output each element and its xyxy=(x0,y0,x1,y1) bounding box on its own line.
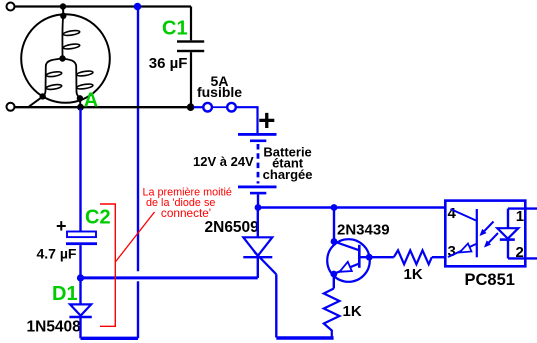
svg-text:2N3439: 2N3439 xyxy=(337,221,390,238)
battery BT1 plates xyxy=(238,133,277,194)
svg-text:12V à 24V: 12V à 24V xyxy=(193,154,254,169)
node rail-collector junction xyxy=(331,204,338,211)
inductor winding top loop 1 xyxy=(63,30,80,37)
wire emitter down lead xyxy=(333,274,335,289)
wire fuse left lead xyxy=(194,106,204,108)
wire main rail to optocoupler xyxy=(258,206,445,209)
LED anode lead xyxy=(507,209,509,229)
wire C1 bottom lead xyxy=(190,52,192,107)
svg-text:C2: C2 xyxy=(85,207,111,229)
inductor winding left loop 2 xyxy=(46,84,62,91)
node blue junction top xyxy=(134,3,142,11)
capacitor C1 plates xyxy=(177,40,204,52)
svg-text:fusible: fusible xyxy=(197,84,242,100)
resistor R2 1K vertical xyxy=(324,289,340,338)
node emitter junction xyxy=(330,271,337,278)
node bottom rail junction xyxy=(187,103,195,111)
phototransistor base bar xyxy=(476,209,478,257)
svg-text:1K: 1K xyxy=(404,266,423,283)
fuse F1 label xyxy=(197,73,242,100)
inductor winding left loop 1 xyxy=(46,71,62,78)
wire generator left bottom lead xyxy=(29,97,43,107)
node collector junction xyxy=(331,238,338,245)
wire D1 anode lead xyxy=(79,278,81,304)
node circle top junction xyxy=(60,13,66,19)
transistor Q2 2N3439 symbol xyxy=(327,239,370,282)
optocoupler U1 PC851 box xyxy=(445,201,525,267)
node winding left bottom junction xyxy=(40,93,46,99)
LED symbol xyxy=(497,228,518,239)
resistor R1 1K horizontal xyxy=(394,250,432,264)
node top wire junction xyxy=(60,3,66,9)
node base junction xyxy=(366,254,373,261)
wire SCR gate down lead xyxy=(275,274,277,337)
light arrow 1 xyxy=(480,222,494,237)
svg-text:1: 1 xyxy=(516,208,524,225)
svg-text:C1: C1 xyxy=(162,18,188,40)
inductor winding right loop 2 xyxy=(76,83,93,90)
svg-text:chargée: chargée xyxy=(263,167,313,182)
wire R1 to optocoupler pin3 xyxy=(432,256,446,258)
wire top rail black xyxy=(14,5,191,7)
node C2-D1 junction xyxy=(77,274,84,281)
light arrow 2 xyxy=(484,233,498,248)
node battery-SCR junction xyxy=(255,204,262,211)
wire generator right bottom lead xyxy=(79,98,82,107)
wire SCR anode lead xyxy=(257,208,259,238)
generator G1 circle xyxy=(21,14,110,103)
wire pin 2 out xyxy=(508,257,537,259)
wire fuse to battery xyxy=(236,107,258,133)
node A junction xyxy=(77,104,84,111)
wire SCR cathode lead xyxy=(257,257,259,278)
wire C2 bottom lead xyxy=(79,245,81,278)
svg-text:2N6509: 2N6509 xyxy=(205,219,260,236)
terminal top-left xyxy=(7,3,15,11)
wire vertical blue bridge return x=138 xyxy=(137,7,139,338)
annotation red bracket xyxy=(100,204,115,326)
inductor winding right loop 1 xyxy=(76,70,93,77)
annotation red pointer line xyxy=(115,212,154,262)
wire generator center winding lead xyxy=(61,16,64,59)
terminal bottom-left xyxy=(7,103,15,111)
node winding center junction xyxy=(59,55,65,61)
battery name label Batterie etant chargee xyxy=(263,144,313,181)
wire A node down lead xyxy=(79,109,81,232)
wire D1 cathode lead xyxy=(79,317,81,338)
wire battery bottom lead xyxy=(257,194,259,207)
LED cathode lead xyxy=(507,240,509,259)
wire gate rail xyxy=(81,276,258,279)
svg-text:D1: D1 xyxy=(52,283,78,305)
thyristor Q1 2N6509 symbol xyxy=(243,237,276,274)
phototransistor emitter lead xyxy=(448,244,476,258)
wire base lead xyxy=(359,256,394,258)
svg-text:4.7 µF: 4.7 µF xyxy=(37,246,77,262)
phototransistor collector lead xyxy=(451,209,477,221)
svg-text:+: + xyxy=(258,104,276,137)
wire generator top lead xyxy=(62,7,64,16)
svg-text:+: + xyxy=(56,216,67,236)
capacitor C2 plates xyxy=(66,232,97,246)
svg-text:36 µF: 36 µF xyxy=(149,55,188,72)
wire pin 1 out xyxy=(508,207,537,209)
svg-text:4: 4 xyxy=(448,205,457,222)
svg-text:A: A xyxy=(84,89,98,111)
wire winding right branch xyxy=(63,59,80,99)
svg-text:1K: 1K xyxy=(343,303,362,320)
wire bottom right rail xyxy=(276,336,333,339)
wire bottom rail black xyxy=(14,106,191,108)
wire bottom left rail xyxy=(81,337,139,340)
svg-text:connecte': connecte' xyxy=(161,206,211,220)
svg-text:1N5408: 1N5408 xyxy=(27,319,82,336)
svg-text:PC851: PC851 xyxy=(465,271,515,289)
fuse F1 symbol xyxy=(203,103,236,112)
inductor winding top loop 2 xyxy=(63,43,80,50)
node winding right bottom junction xyxy=(77,95,83,101)
wire winding left branch xyxy=(43,59,63,97)
wire collector lead xyxy=(333,208,335,242)
wire C1 top lead xyxy=(190,7,192,41)
diode D1 symbol xyxy=(69,304,91,317)
